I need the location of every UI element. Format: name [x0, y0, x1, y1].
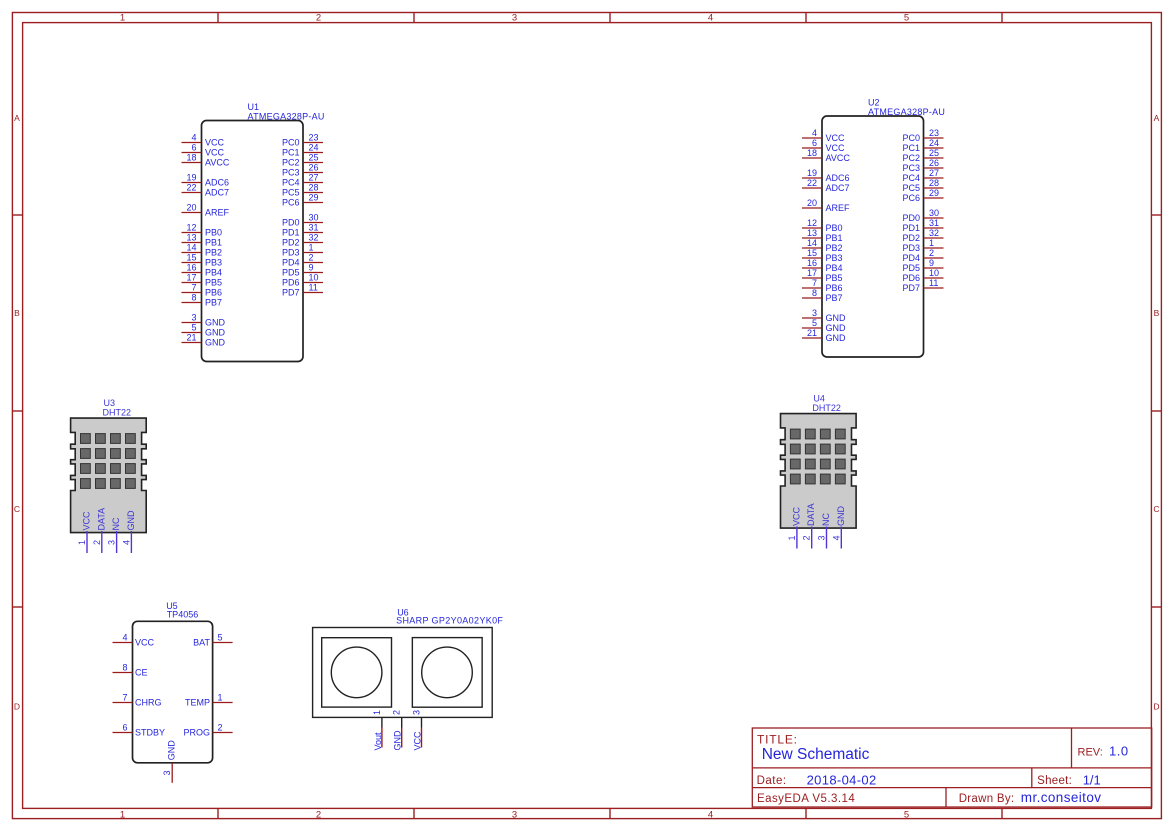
- svg-text:7: 7: [812, 278, 817, 288]
- svg-text:PD0: PD0: [282, 218, 300, 228]
- svg-text:DATA: DATA: [806, 503, 816, 526]
- svg-text:VCC: VCC: [205, 138, 225, 148]
- svg-text:New Schematic: New Schematic: [762, 746, 870, 763]
- svg-text:26: 26: [309, 163, 319, 173]
- svg-text:GND: GND: [205, 328, 226, 338]
- svg-text:A: A: [14, 113, 20, 123]
- svg-text:Drawn By:: Drawn By:: [959, 793, 1015, 805]
- svg-text:14: 14: [186, 243, 196, 253]
- svg-text:Vout: Vout: [373, 732, 383, 751]
- svg-text:A: A: [1154, 113, 1160, 123]
- svg-text:3: 3: [812, 308, 817, 318]
- svg-text:PD2: PD2: [902, 233, 920, 243]
- svg-text:1: 1: [372, 710, 382, 715]
- svg-text:AVCC: AVCC: [826, 153, 851, 163]
- svg-text:PC5: PC5: [282, 188, 300, 198]
- svg-text:PB4: PB4: [205, 268, 222, 278]
- svg-text:PROG: PROG: [183, 728, 210, 738]
- svg-text:23: 23: [929, 128, 939, 138]
- svg-text:PC1: PC1: [902, 143, 920, 153]
- svg-text:PD4: PD4: [282, 258, 300, 268]
- svg-text:4: 4: [708, 809, 713, 820]
- svg-text:VCC: VCC: [826, 133, 846, 143]
- svg-text:Date:: Date:: [757, 775, 787, 787]
- svg-text:3: 3: [412, 710, 422, 715]
- svg-text:PB5: PB5: [205, 278, 222, 288]
- svg-text:15: 15: [186, 253, 196, 263]
- svg-text:5: 5: [904, 809, 909, 820]
- svg-text:PB5: PB5: [826, 273, 843, 283]
- svg-text:PC6: PC6: [282, 198, 300, 208]
- svg-text:PB3: PB3: [205, 258, 222, 268]
- svg-text:STDBY: STDBY: [135, 728, 165, 738]
- svg-text:PC4: PC4: [902, 173, 920, 183]
- svg-text:TP4056: TP4056: [167, 610, 199, 620]
- svg-text:PC2: PC2: [902, 153, 920, 163]
- svg-text:24: 24: [309, 143, 319, 153]
- svg-text:2018-04-02: 2018-04-02: [807, 772, 877, 787]
- svg-text:10: 10: [309, 273, 319, 283]
- svg-text:5: 5: [218, 633, 223, 643]
- svg-text:PC1: PC1: [282, 148, 300, 158]
- svg-text:20: 20: [186, 203, 196, 213]
- svg-text:2: 2: [802, 535, 812, 540]
- svg-text:GND: GND: [205, 318, 226, 328]
- svg-text:27: 27: [309, 173, 319, 183]
- svg-text:GND: GND: [826, 313, 847, 323]
- svg-text:21: 21: [186, 333, 196, 343]
- svg-text:DATA: DATA: [96, 508, 106, 531]
- svg-text:3: 3: [817, 535, 827, 540]
- svg-text:22: 22: [807, 178, 817, 188]
- svg-text:NC: NC: [821, 513, 831, 526]
- svg-text:31: 31: [929, 218, 939, 228]
- svg-text:26: 26: [929, 158, 939, 168]
- svg-text:PD5: PD5: [282, 268, 300, 278]
- svg-text:TEMP: TEMP: [185, 698, 210, 708]
- svg-text:4: 4: [708, 13, 713, 24]
- svg-text:PB7: PB7: [826, 293, 843, 303]
- svg-text:mr.conseitov: mr.conseitov: [1021, 790, 1102, 805]
- svg-text:AREF: AREF: [205, 208, 230, 218]
- svg-text:8: 8: [191, 293, 196, 303]
- svg-text:3: 3: [512, 13, 517, 24]
- svg-text:13: 13: [807, 228, 817, 238]
- svg-text:30: 30: [929, 208, 939, 218]
- svg-text:5: 5: [904, 13, 909, 24]
- svg-text:29: 29: [309, 193, 319, 203]
- svg-text:4: 4: [191, 133, 196, 143]
- svg-text:PB0: PB0: [205, 228, 222, 238]
- svg-text:B: B: [14, 308, 20, 318]
- svg-text:GND: GND: [393, 730, 403, 751]
- svg-text:PD3: PD3: [282, 248, 300, 258]
- svg-text:CE: CE: [135, 668, 148, 678]
- svg-text:16: 16: [186, 263, 196, 273]
- svg-text:23: 23: [309, 133, 319, 143]
- svg-text:C: C: [1153, 504, 1159, 514]
- svg-text:VCC: VCC: [82, 511, 92, 531]
- svg-text:REV:: REV:: [1078, 746, 1103, 758]
- svg-text:19: 19: [186, 173, 196, 183]
- svg-text:2: 2: [929, 248, 934, 258]
- svg-text:2: 2: [218, 723, 223, 733]
- svg-text:5: 5: [191, 323, 196, 333]
- svg-text:20: 20: [807, 198, 817, 208]
- svg-text:2: 2: [392, 710, 402, 715]
- svg-text:TITLE:: TITLE:: [757, 733, 798, 747]
- svg-text:7: 7: [191, 283, 196, 293]
- svg-text:7: 7: [122, 693, 127, 703]
- svg-text:GND: GND: [826, 333, 847, 343]
- svg-text:28: 28: [929, 178, 939, 188]
- svg-text:Sheet:: Sheet:: [1037, 775, 1072, 787]
- svg-text:1: 1: [120, 809, 125, 820]
- svg-text:30: 30: [309, 213, 319, 223]
- svg-text:16: 16: [807, 258, 817, 268]
- svg-text:PB2: PB2: [826, 243, 843, 253]
- svg-text:PC3: PC3: [282, 168, 300, 178]
- svg-text:32: 32: [309, 233, 319, 243]
- svg-text:2: 2: [309, 253, 314, 263]
- svg-text:SHARP GP2Y0A02YK0F: SHARP GP2Y0A02YK0F: [396, 616, 503, 626]
- svg-text:VCC: VCC: [826, 143, 846, 153]
- svg-text:PB3: PB3: [826, 253, 843, 263]
- svg-text:NC: NC: [111, 517, 121, 530]
- svg-text:9: 9: [929, 258, 934, 268]
- svg-text:22: 22: [186, 183, 196, 193]
- svg-text:21: 21: [807, 328, 817, 338]
- svg-text:PB6: PB6: [205, 288, 222, 298]
- svg-text:PD7: PD7: [902, 283, 920, 293]
- svg-text:EasyEDA V5.3.14: EasyEDA V5.3.14: [757, 793, 855, 805]
- svg-text:VCC: VCC: [413, 731, 423, 751]
- svg-text:PB2: PB2: [205, 248, 222, 258]
- svg-text:17: 17: [807, 268, 817, 278]
- svg-text:11: 11: [309, 283, 318, 293]
- svg-text:4: 4: [812, 128, 817, 138]
- svg-text:PD3: PD3: [902, 243, 920, 253]
- svg-text:PC5: PC5: [902, 183, 920, 193]
- svg-text:GND: GND: [826, 323, 847, 333]
- svg-text:AVCC: AVCC: [205, 158, 230, 168]
- svg-text:PB4: PB4: [826, 263, 843, 273]
- svg-text:4: 4: [121, 540, 131, 545]
- svg-text:10: 10: [929, 268, 939, 278]
- svg-text:32: 32: [929, 228, 939, 238]
- svg-text:25: 25: [929, 148, 939, 158]
- svg-text:9: 9: [309, 263, 314, 273]
- svg-text:BAT: BAT: [193, 638, 210, 648]
- svg-text:1: 1: [218, 693, 223, 703]
- svg-text:4: 4: [831, 535, 841, 540]
- svg-text:2: 2: [92, 540, 102, 545]
- svg-text:12: 12: [807, 218, 817, 228]
- svg-text:17: 17: [186, 273, 196, 283]
- svg-text:PB0: PB0: [826, 223, 843, 233]
- svg-text:PB7: PB7: [205, 298, 222, 308]
- svg-text:5: 5: [812, 318, 817, 328]
- svg-text:VCC: VCC: [205, 148, 225, 158]
- svg-text:12: 12: [186, 223, 196, 233]
- svg-text:ADC6: ADC6: [826, 173, 850, 183]
- svg-text:PC3: PC3: [902, 163, 920, 173]
- svg-text:15: 15: [807, 248, 817, 258]
- svg-text:1: 1: [77, 540, 87, 545]
- svg-text:C: C: [14, 504, 20, 514]
- svg-text:24: 24: [929, 138, 939, 148]
- svg-text:1: 1: [929, 238, 934, 248]
- svg-text:3: 3: [162, 770, 172, 775]
- svg-text:ADC6: ADC6: [205, 178, 229, 188]
- svg-text:D: D: [1153, 702, 1159, 712]
- svg-text:PD1: PD1: [282, 228, 300, 238]
- svg-text:PB1: PB1: [205, 238, 222, 248]
- svg-text:6: 6: [812, 138, 817, 148]
- svg-text:25: 25: [309, 153, 319, 163]
- svg-text:AREF: AREF: [826, 203, 851, 213]
- svg-text:PD7: PD7: [282, 288, 300, 298]
- svg-text:29: 29: [929, 188, 939, 198]
- svg-text:28: 28: [309, 183, 319, 193]
- svg-text:D: D: [14, 702, 20, 712]
- svg-text:3: 3: [191, 313, 196, 323]
- svg-text:1.0: 1.0: [1109, 744, 1129, 759]
- svg-text:8: 8: [122, 663, 127, 673]
- svg-text:ADC7: ADC7: [205, 188, 229, 198]
- svg-text:19: 19: [807, 168, 817, 178]
- svg-text:1: 1: [120, 13, 125, 24]
- svg-text:DHT22: DHT22: [812, 403, 841, 413]
- svg-text:VCC: VCC: [135, 638, 155, 648]
- svg-text:1/1: 1/1: [1083, 772, 1101, 787]
- svg-text:PC0: PC0: [902, 133, 920, 143]
- svg-text:6: 6: [191, 143, 196, 153]
- svg-text:PC6: PC6: [902, 193, 920, 203]
- svg-text:PD6: PD6: [282, 278, 300, 288]
- svg-text:27: 27: [929, 168, 939, 178]
- svg-text:1: 1: [309, 243, 314, 253]
- svg-text:18: 18: [807, 148, 817, 158]
- svg-text:PD0: PD0: [902, 213, 920, 223]
- svg-text:PC2: PC2: [282, 158, 300, 168]
- svg-text:PC4: PC4: [282, 178, 300, 188]
- svg-text:3: 3: [512, 809, 517, 820]
- svg-text:PB6: PB6: [826, 283, 843, 293]
- svg-text:PD6: PD6: [902, 273, 920, 283]
- svg-text:B: B: [1154, 308, 1160, 318]
- svg-text:3: 3: [107, 540, 117, 545]
- svg-text:GND: GND: [836, 506, 846, 527]
- svg-text:GND: GND: [167, 740, 177, 761]
- svg-text:PD5: PD5: [902, 263, 920, 273]
- svg-text:8: 8: [812, 288, 817, 298]
- svg-text:18: 18: [186, 153, 196, 163]
- svg-text:ADC7: ADC7: [826, 183, 850, 193]
- svg-text:PD2: PD2: [282, 238, 300, 248]
- svg-text:CHRG: CHRG: [135, 698, 162, 708]
- svg-text:13: 13: [186, 233, 196, 243]
- svg-text:31: 31: [309, 223, 319, 233]
- svg-text:2: 2: [316, 809, 321, 820]
- svg-text:VCC: VCC: [791, 506, 801, 526]
- svg-text:2: 2: [316, 13, 321, 24]
- svg-text:6: 6: [122, 723, 127, 733]
- svg-text:PD4: PD4: [902, 253, 920, 263]
- svg-text:DHT22: DHT22: [103, 407, 132, 417]
- svg-text:14: 14: [807, 238, 817, 248]
- svg-text:PC0: PC0: [282, 138, 300, 148]
- svg-text:PB1: PB1: [826, 233, 843, 243]
- svg-text:4: 4: [122, 633, 127, 643]
- svg-text:GND: GND: [126, 510, 136, 531]
- svg-text:1: 1: [787, 535, 797, 540]
- svg-text:PD1: PD1: [902, 223, 920, 233]
- svg-text:GND: GND: [205, 338, 226, 348]
- svg-text:11: 11: [929, 278, 938, 288]
